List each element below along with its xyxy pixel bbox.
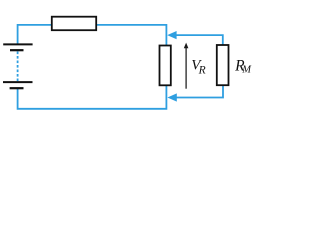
- svg-text:R: R: [198, 64, 206, 76]
- svg-text:M: M: [241, 64, 252, 75]
